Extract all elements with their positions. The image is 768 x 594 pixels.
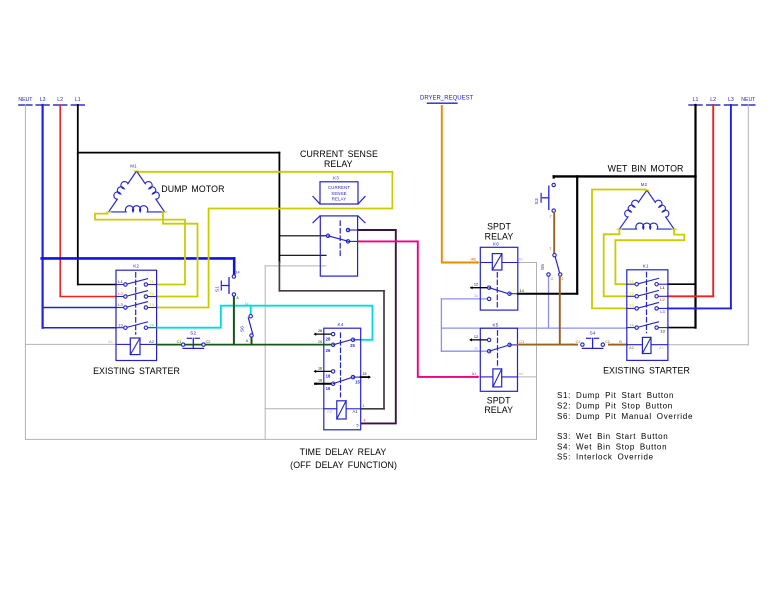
svg-text:L3: L3 [660, 309, 665, 314]
svg-text:EXISTING STARTER: EXISTING STARTER [603, 366, 690, 376]
svg-text:2: 2 [562, 277, 564, 281]
svg-text:A2: A2 [629, 345, 635, 350]
svg-text:S4: Wet Bin Stop Button: S4: Wet Bin Stop Button [557, 443, 667, 452]
svg-text:26: 26 [326, 348, 331, 353]
svg-text:S2: Dump Pit Stop Button: S2: Dump Pit Stop Button [557, 401, 673, 410]
svg-text:DUMP MOTOR: DUMP MOTOR [161, 184, 224, 194]
svg-text:L2: L2 [118, 291, 123, 296]
svg-text:4: 4 [364, 419, 366, 423]
svg-text:T2: T2 [629, 291, 634, 296]
svg-text:SENSE: SENSE [331, 191, 346, 196]
svg-text:L1: L1 [75, 97, 81, 103]
svg-text:28: 28 [318, 329, 322, 333]
svg-text:26: 26 [318, 340, 322, 344]
svg-text:L1: L1 [118, 279, 123, 284]
svg-text:A1: A1 [472, 257, 477, 261]
svg-text:A1: A1 [352, 409, 358, 414]
svg-text:B: B [619, 340, 622, 344]
svg-text:T1: T1 [629, 279, 634, 284]
svg-text:TIME DELAY RELAY: TIME DELAY RELAY [300, 447, 387, 457]
svg-text:K2: K2 [133, 264, 139, 269]
svg-text:16: 16 [318, 379, 322, 383]
svg-text:11: 11 [474, 294, 478, 298]
svg-text:11: 11 [550, 277, 554, 281]
svg-text:L3: L3 [40, 97, 46, 103]
svg-text:L2: L2 [710, 97, 716, 103]
svg-text:2: 2 [550, 215, 552, 219]
svg-text:C1: C1 [177, 340, 182, 344]
svg-text:DRYER_REQUEST: DRYER_REQUEST [420, 96, 474, 102]
svg-text:L1: L1 [693, 97, 699, 103]
svg-text:L3: L3 [118, 302, 123, 307]
svg-text:L2: L2 [57, 97, 63, 103]
svg-text:EXISTING STARTER: EXISTING STARTER [93, 366, 180, 376]
svg-text:A1: A1 [659, 345, 665, 350]
svg-text:25: 25 [350, 343, 355, 348]
svg-text:NEUT: NEUT [18, 97, 33, 103]
svg-text:C2: C2 [605, 340, 610, 344]
svg-text:K3: K3 [333, 176, 339, 181]
svg-text:13: 13 [118, 322, 123, 327]
svg-text:18: 18 [318, 366, 322, 370]
svg-text:CURRENT: CURRENT [328, 185, 350, 190]
svg-text:A2: A2 [519, 372, 524, 376]
svg-text:RELAY: RELAY [485, 232, 514, 242]
svg-text:S6: Dump Pit Manual Override: S6: Dump Pit Manual Override [557, 412, 693, 421]
svg-text:WET BIN MOTOR: WET BIN MOTOR [608, 164, 684, 174]
svg-text:T2: T2 [149, 291, 154, 296]
svg-text:S4: S4 [589, 331, 595, 337]
svg-text:T1: T1 [149, 279, 154, 284]
svg-text:C1: C1 [576, 340, 581, 344]
svg-text:L3: L3 [728, 97, 734, 103]
svg-text:S6: S6 [240, 326, 246, 332]
svg-text:K5: K5 [492, 322, 498, 327]
svg-text:14: 14 [244, 302, 248, 306]
svg-text:S1: Dump Pit Start Button: S1: Dump Pit Start Button [557, 391, 674, 400]
svg-text:12: 12 [474, 283, 478, 287]
svg-text:CURRENT SENSE: CURRENT SENSE [300, 149, 378, 159]
svg-text:M2: M2 [641, 182, 648, 187]
svg-text:T3: T3 [149, 302, 154, 307]
svg-text:A1: A1 [472, 372, 477, 376]
svg-text:A2: A2 [327, 409, 333, 414]
svg-text:S3: Wet Bin Start Button: S3: Wet Bin Start Button [557, 432, 668, 441]
svg-text:S3: S3 [534, 198, 540, 204]
svg-text:RELAY: RELAY [324, 159, 353, 169]
svg-text:S5: Interlock Override: S5: Interlock Override [557, 453, 654, 462]
svg-text:A2: A2 [519, 257, 524, 261]
svg-text:A: A [246, 339, 249, 343]
svg-text:12: 12 [474, 335, 478, 339]
svg-text:NEUT: NEUT [741, 97, 756, 103]
svg-text:RELAY: RELAY [332, 197, 347, 202]
svg-text:C1: C1 [519, 340, 524, 344]
svg-text:S2: S2 [190, 331, 196, 337]
svg-text:K6: K6 [493, 241, 499, 246]
svg-text:SPDT: SPDT [487, 221, 511, 231]
svg-text:28: 28 [326, 337, 331, 342]
svg-text:15: 15 [363, 372, 367, 376]
svg-text:K1: K1 [643, 263, 649, 268]
svg-text:SPDT: SPDT [487, 395, 511, 405]
svg-text:T3: T3 [629, 303, 634, 308]
svg-text:(OFF DELAY FUNCTION): (OFF DELAY FUNCTION) [290, 460, 397, 470]
svg-text:A1: A1 [108, 339, 114, 344]
svg-text:K4: K4 [337, 322, 343, 327]
svg-text:S1: S1 [214, 286, 220, 292]
svg-text:L1: L1 [660, 285, 665, 290]
svg-text:L2: L2 [660, 297, 665, 302]
svg-text:1: 1 [363, 404, 365, 408]
svg-text:RELAY: RELAY [484, 405, 513, 415]
svg-text:14: 14 [629, 322, 634, 327]
svg-text:11: 11 [474, 346, 478, 350]
svg-text:15: 15 [355, 380, 360, 385]
svg-text:16: 16 [326, 386, 331, 391]
svg-text:A2: A2 [149, 339, 155, 344]
svg-text:14: 14 [149, 322, 154, 327]
svg-text:M1: M1 [130, 164, 137, 169]
svg-text:14: 14 [235, 271, 239, 275]
svg-text:A: A [236, 296, 239, 300]
svg-text:14: 14 [520, 289, 524, 293]
svg-text:18: 18 [326, 374, 331, 379]
svg-text:13: 13 [660, 328, 665, 333]
svg-text:1: 1 [550, 247, 552, 251]
svg-text:S5: S5 [540, 264, 546, 270]
svg-text:C2: C2 [206, 340, 211, 344]
